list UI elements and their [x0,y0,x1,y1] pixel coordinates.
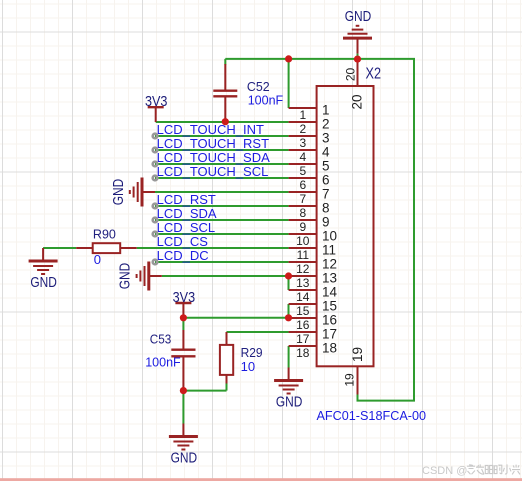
svg-text:GND: GND [171,450,198,467]
junction [222,118,229,125]
wire [182,391,184,424]
svg-text:LCD_TOUCH_INT: LCD_TOUCH_INT [157,122,264,137]
svg-text:GND: GND [30,274,57,291]
ground (R90) [42,248,44,261]
pin 4 [289,149,317,151]
svg-text:100nF: 100nF [145,355,181,370]
svg-text:CSDN @: CSDN @ [422,465,467,477]
svg-text:7: 7 [299,192,306,206]
svg-text:2: 2 [299,122,306,136]
pin 12 [289,261,317,263]
svg-text:8: 8 [322,200,330,215]
svg-text:LCD_SCL: LCD_SCL [157,220,216,235]
svg-text:13: 13 [296,276,310,290]
svg-text:GND: GND [116,263,133,290]
svg-text:14: 14 [296,290,310,304]
svg-text:5: 5 [322,158,330,173]
pin 8 [289,205,317,207]
pin 1 [289,107,317,109]
svg-text:3V3: 3V3 [145,93,168,110]
svg-text:GND: GND [110,179,127,206]
wire [225,59,414,401]
wire [156,121,289,123]
net label anchor [153,204,158,209]
wire [162,275,289,277]
svg-text:6: 6 [322,172,330,187]
svg-text:12: 12 [322,256,337,271]
svg-text:2: 2 [322,116,330,131]
wire [288,304,290,318]
net label anchor [153,134,158,139]
pin 18 [289,345,317,347]
junction [285,55,292,62]
svg-text:R90: R90 [93,226,116,241]
wire [155,177,289,179]
ground (pin7) [142,191,155,193]
junction [180,387,187,394]
svg-text:100nF: 100nF [248,93,284,108]
svg-text:16: 16 [322,312,337,327]
ground (pin18) [288,368,290,381]
svg-text:LCD_DC: LCD_DC [157,248,209,263]
svg-text:LCD_SDA: LCD_SDA [157,206,217,221]
watermark strip [0,478,522,481]
svg-text:4: 4 [299,150,306,164]
pin 16 [289,317,317,319]
svg-text:18: 18 [322,340,337,355]
pin 13 [289,275,317,277]
svg-text:20: 20 [344,68,358,82]
power 3V3 (pin16 rail) [182,303,184,318]
svg-text:LCD_TOUCH_RST: LCD_TOUCH_RST [157,136,270,151]
pin 10 [289,233,317,235]
svg-text:12: 12 [296,262,310,276]
junction [180,314,187,321]
svg-text:3V3: 3V3 [173,289,196,306]
net label anchor [153,148,158,153]
svg-text:0: 0 [94,252,101,267]
capacitor C52 [224,64,226,90]
pin 11 [289,247,317,249]
net label anchor [153,162,158,167]
svg-text:9: 9 [322,214,330,229]
svg-text:LCD_TOUCH_SDA: LCD_TOUCH_SDA [157,150,271,165]
svg-text:10: 10 [241,359,255,374]
power 3V3 (pin2 rail) [155,107,157,122]
wire [288,346,290,368]
svg-text:19: 19 [350,347,365,362]
ground (top, pin20) [357,54,359,60]
junction [354,56,361,63]
svg-text:15: 15 [296,304,310,318]
svg-text:16: 16 [296,318,310,332]
pin 14 [289,289,317,291]
pin 17 [289,331,317,333]
pin 6 [289,177,317,179]
svg-text:LCD_TOUCH_SCL: LCD_TOUCH_SCL [157,164,269,179]
wire [288,59,290,108]
resistor R29 [226,332,228,345]
wire [224,59,226,65]
wire [155,233,289,235]
svg-text:14: 14 [322,284,338,299]
wire [183,390,226,392]
capacitor C53 [182,330,184,349]
pin 19 [357,366,359,394]
svg-text:11: 11 [322,242,336,257]
svg-text:6: 6 [299,178,306,192]
junction [285,314,292,321]
ground (C53) [182,424,184,437]
svg-text:3: 3 [322,130,330,145]
pin 2 [289,121,317,123]
wire [182,318,184,330]
svg-text:10: 10 [296,234,310,248]
svg-text:C53: C53 [150,332,172,347]
wire [227,331,289,333]
wire [155,261,289,263]
svg-text:LCD_RST: LCD_RST [157,192,216,207]
pin 20 [357,59,359,86]
net label anchor [153,176,158,181]
svg-text:AFC01-S18FCA-00: AFC01-S18FCA-00 [317,408,427,423]
svg-text:19: 19 [343,373,357,387]
net label anchor [153,260,158,265]
ground (pin13) [149,275,162,277]
wire [155,135,289,137]
svg-text:17: 17 [322,326,337,341]
svg-text:LCD_CS: LCD_CS [157,234,209,249]
svg-text:1: 1 [322,102,330,117]
wire [155,163,289,165]
wire [288,276,290,290]
pin 3 [289,135,317,137]
svg-text:4: 4 [322,144,330,159]
connector X2 [317,86,374,366]
svg-text:11: 11 [297,248,310,262]
wire [137,247,289,249]
svg-text:18: 18 [296,346,310,360]
svg-text:3: 3 [299,136,306,150]
svg-text:R29: R29 [241,345,263,360]
svg-text:9: 9 [299,220,306,234]
svg-text:20: 20 [350,94,365,109]
junction [285,272,292,279]
svg-text:17: 17 [296,332,310,346]
svg-text:GND: GND [345,8,372,25]
wire [155,219,289,221]
svg-text:GND: GND [276,394,303,411]
svg-text:10: 10 [322,228,337,243]
wire [226,384,228,391]
svg-text:1: 1 [299,108,306,122]
svg-text:13: 13 [322,270,337,285]
wire [183,317,288,319]
resistor R90 [76,247,93,249]
svg-text:8: 8 [299,206,306,220]
svg-text:5: 5 [299,164,306,178]
svg-text:15: 15 [322,298,337,313]
wire [155,205,289,207]
pin 15 [289,303,317,305]
wire [43,247,76,249]
svg-text:7: 7 [322,186,330,201]
wire [155,191,289,193]
pin 7 [289,191,317,193]
svg-text:X2: X2 [366,66,382,83]
wire [155,149,289,151]
pin 9 [289,219,317,221]
net label anchor [153,232,158,237]
net label anchor [153,218,158,223]
pin 5 [289,163,317,165]
